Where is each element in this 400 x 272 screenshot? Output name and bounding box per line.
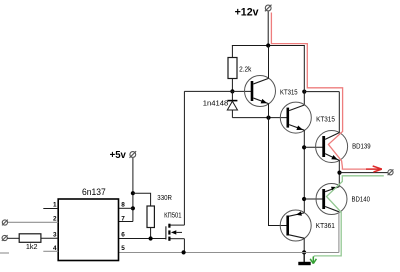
wire BD139 base: [304, 146, 324, 148]
svg-text:1: 1: [53, 202, 57, 209]
svg-text:KT315: KT315: [280, 89, 298, 96]
wire top bus corner down: [303, 46, 305, 92]
node gate junction: [149, 236, 153, 240]
wire to 330R top: [133, 193, 151, 206]
svg-text:+12v: +12v: [235, 7, 260, 19]
pin 3: [41, 237, 58, 239]
wire +5v down: [132, 158, 134, 222]
wire Q2 emitter chain down: [303, 130, 305, 213]
transistor Q2 KT315: [280, 102, 311, 133]
diode 1n4148: [227, 91, 237, 117]
node Q2 collector junction: [302, 90, 306, 94]
terminal input A: [2, 220, 8, 226]
wire pin 8: [119, 207, 133, 209]
transistor M1 КП501: [166, 224, 185, 253]
wire 330R bottom: [150, 228, 152, 239]
wire left stub: [0, 252, 9, 254]
terminal output: [388, 169, 394, 175]
svg-text:1k2: 1k2: [26, 244, 38, 251]
wire BD140 collector riser: [338, 212, 340, 253]
node BD139 base junction: [302, 145, 306, 149]
wire red current path: [271, 13, 378, 170]
pin 4: [43, 250, 58, 252]
svg-text:КП501: КП501: [164, 213, 182, 220]
svg-text:6: 6: [121, 231, 125, 238]
svg-text:+5v: +5v: [110, 150, 127, 161]
svg-text:5: 5: [121, 245, 125, 252]
pin 2: [8, 221, 59, 223]
wire output to terminal: [340, 172, 389, 174]
resistor 330R: [147, 206, 154, 228]
wire ground rail: [119, 252, 339, 254]
svg-text:3: 3: [53, 231, 57, 238]
node ground junction: [302, 250, 306, 254]
node source junction: [182, 250, 186, 254]
wire top horizontal bus: [232, 45, 305, 47]
wire darlington node horizontal: [232, 117, 287, 119]
pin 1: [43, 208, 58, 210]
wire pin 6 to gate: [119, 238, 166, 240]
wire input B to R 1k2: [7, 237, 19, 239]
terminal input B: [2, 235, 8, 241]
resistor 1k2: [19, 234, 41, 243]
svg-text:330R: 330R: [157, 195, 172, 202]
IC U1 6n137: [58, 199, 118, 261]
transistor Q4 BD140: [316, 184, 347, 215]
node diode junction: [230, 89, 234, 93]
svg-text:8: 8: [121, 202, 125, 209]
node pin8 junction: [131, 206, 135, 210]
ground: [298, 253, 310, 266]
wire Q1 emitter down: [268, 104, 270, 118]
svg-text:BD140: BD140: [352, 196, 371, 203]
resistor 2.2k: [228, 58, 237, 79]
wire Q1 collector up: [268, 46, 270, 79]
terminal +5v: [130, 151, 137, 158]
node BD140 base junction: [302, 197, 306, 201]
wire BD139 emitter down: [338, 160, 340, 186]
red arrow output: [366, 166, 382, 172]
node +12v junction: [266, 43, 270, 47]
wire collector bus right: [304, 91, 339, 93]
wire pin 7: [119, 221, 133, 223]
transistor Q5 KT361: [280, 210, 311, 241]
svg-text:KT315: KT315: [316, 116, 335, 123]
wire BD139 collector from bus: [338, 92, 340, 133]
transistor Q3 BD139: [316, 131, 348, 163]
node 330R branch: [131, 191, 135, 195]
svg-text:KT361: KT361: [316, 223, 335, 230]
wire to resistor 2.2k top: [231, 46, 233, 58]
terminal +12v: [265, 5, 272, 12]
svg-text:BD139: BD139: [352, 144, 371, 151]
wire Q2 collector: [303, 92, 305, 105]
svg-text:2.2k: 2.2k: [239, 66, 252, 73]
green arrow ground: [310, 257, 316, 264]
svg-text:6n137: 6n137: [82, 187, 106, 197]
wire resistor 2.2k bottom: [231, 79, 233, 92]
svg-text:4: 4: [53, 245, 57, 252]
wire drain riser: [183, 91, 185, 225]
wire base drive horizontal: [184, 90, 251, 92]
svg-text:2: 2: [53, 215, 57, 222]
wire darlington to KT361 base: [269, 118, 288, 226]
node output junction: [337, 171, 341, 175]
node darlington junction: [266, 116, 270, 120]
svg-text:1n4148: 1n4148: [203, 101, 229, 108]
svg-text:7: 7: [121, 215, 125, 222]
wire BD140 base: [304, 198, 323, 200]
wire +12v down: [267, 12, 269, 46]
wire KT361 collector down: [303, 238, 305, 252]
wire green current path: [313, 176, 383, 257]
transistor Q1 KT315: [245, 76, 276, 107]
